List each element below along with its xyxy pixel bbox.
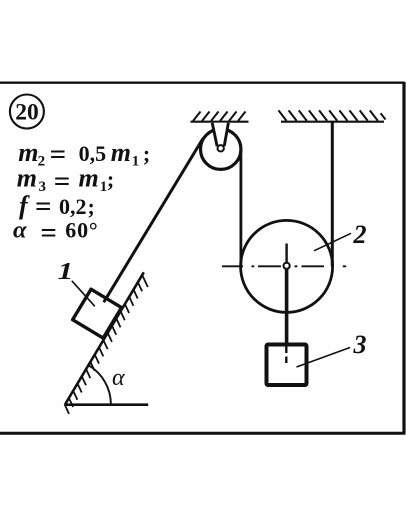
frame top border xyxy=(0,81,405,83)
small pulley wheel xyxy=(201,129,241,169)
label 2 leader line xyxy=(314,233,351,251)
frame right border xyxy=(402,82,405,434)
right ceiling hatching xyxy=(279,110,386,120)
left ceiling hatching xyxy=(193,112,246,122)
svg-text:2: 2 xyxy=(353,220,367,249)
rope end overlapping block xyxy=(104,295,109,303)
problem number circle xyxy=(10,95,44,129)
pulley 2 wheel xyxy=(241,220,333,312)
left ceiling line xyxy=(191,121,249,123)
label 3 leader line xyxy=(297,348,351,368)
frame bottom border xyxy=(0,432,406,435)
centerline inside mass 3 xyxy=(285,347,287,365)
rope from small pulley down to pulley 2 xyxy=(239,149,242,267)
incline surface line xyxy=(65,272,144,404)
pulley bracket xyxy=(211,123,230,147)
right ceiling line xyxy=(281,121,384,123)
pulley 2 axle pin xyxy=(284,263,290,269)
svg-text:α: α xyxy=(112,365,125,391)
incline hatching xyxy=(65,275,148,414)
svg-text:1: 1 xyxy=(58,258,74,285)
rod from pulley 2 axle to mass 3 xyxy=(285,268,289,345)
svg-text:3: 3 xyxy=(353,330,367,359)
rope from small pulley to block 1 xyxy=(105,138,203,300)
svg-text:20: 20 xyxy=(15,99,39,125)
ground base line xyxy=(64,403,148,406)
rope from right ceiling to pulley 2 xyxy=(331,123,334,267)
block 1 on incline xyxy=(73,289,122,338)
mass 3 box xyxy=(267,345,307,386)
angle alpha arc xyxy=(88,365,111,404)
horizontal dash-dot centerline xyxy=(222,265,346,267)
small pulley axle pin xyxy=(218,145,224,151)
vertical centerline above axle xyxy=(285,244,287,263)
label 1 leader line xyxy=(72,281,95,307)
